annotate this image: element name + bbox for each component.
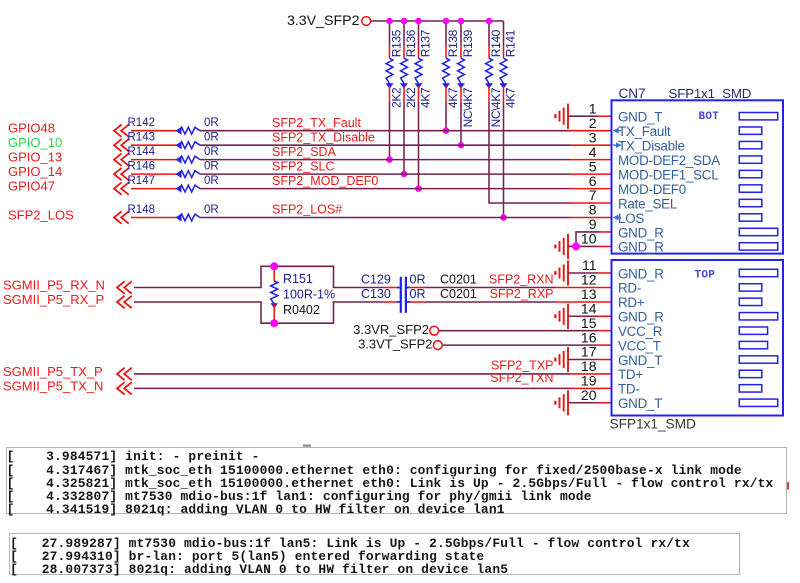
- junction dot pin9/pin10 ground: [572, 242, 580, 250]
- svg-text:R146: R146: [128, 160, 156, 172]
- svg-text:0R: 0R: [204, 204, 219, 216]
- pin 2 TX_Fault: [589, 115, 762, 139]
- svg-text:4K7: 4K7: [503, 87, 517, 108]
- resistor R135 pull-up 2K2: [386, 21, 404, 160]
- svg-text:GND_T: GND_T: [618, 353, 662, 368]
- off-page connector GPIO48: [114, 125, 122, 137]
- svg-text:GND_R: GND_R: [618, 310, 664, 325]
- svg-text:4K7: 4K7: [446, 87, 460, 108]
- ground at pin14: [554, 304, 568, 329]
- ground at pin11: [554, 260, 568, 285]
- svg-text:R137: R137: [418, 29, 432, 57]
- svg-text:GPIO48: GPIO48: [8, 121, 55, 136]
- svg-text:R135: R135: [389, 29, 403, 57]
- svg-text:R141: R141: [503, 29, 517, 57]
- wire pin1 to connector: [568, 115, 598, 117]
- resistor R141 pull-up 4K7: [500, 21, 518, 218]
- ground at pin20: [554, 390, 568, 415]
- svg-text:SFP2_RXN: SFP2_RXN: [489, 272, 554, 286]
- resistor R137 pull-up 4K7: [415, 21, 433, 189]
- console log box 1: [6, 447, 788, 514]
- junction dot R135/SDA: [386, 156, 393, 163]
- svg-text:NC\4K7: NC\4K7: [489, 87, 503, 127]
- power symbol circle 3.3V_SFP2: [362, 17, 371, 26]
- svg-text:R148: R148: [128, 204, 156, 216]
- off-page connector GPIO_14: [114, 168, 122, 180]
- svg-text:0R: 0R: [204, 175, 219, 187]
- pin 16 VCC_T: [581, 329, 768, 353]
- pin 3 TX_Disable: [589, 129, 762, 153]
- svg-text:0R: 0R: [204, 160, 219, 172]
- ground at pin1: [554, 104, 568, 129]
- svg-text:MOD-DEF1_SCL: MOD-DEF1_SCL: [618, 167, 718, 182]
- svg-text:R143: R143: [128, 132, 156, 144]
- svg-text:R151: R151: [283, 272, 313, 286]
- svg-text:MOD-DEF2_SDA: MOD-DEF2_SDA: [618, 153, 720, 168]
- svg-text:R0402: R0402: [283, 303, 320, 317]
- svg-text:GND_T: GND_T: [618, 396, 662, 411]
- wire 3.3V_SFP2 rail: [371, 20, 504, 22]
- wire net SFP2_TX_Fault: [200, 130, 570, 132]
- svg-text:GPIO47: GPIO47: [8, 179, 55, 194]
- svg-text:0R: 0R: [204, 146, 219, 158]
- junction dot R138/TX_Fault: [443, 127, 450, 134]
- svg-text:2K2: 2K2: [389, 87, 403, 108]
- svg-text:SFP2_TX_Disable: SFP2_TX_Disable: [272, 130, 375, 144]
- svg-text:100R-1%: 100R-1%: [283, 288, 335, 302]
- resistor R139 pull-up NC\4K7: [457, 21, 475, 145]
- svg-text:2K2: 2K2: [404, 87, 418, 108]
- svg-text:R138: R138: [446, 29, 460, 57]
- wire SGMII_P5_RX_P jog: [134, 302, 383, 323]
- pin 12 RD-: [581, 272, 762, 296]
- wire net SFP2_SLC: [200, 173, 570, 175]
- off-page connector GPIO_13: [114, 153, 122, 165]
- svg-text:0R: 0R: [204, 117, 219, 129]
- off-page connector SGMII_P5_RX_N: [117, 281, 125, 293]
- off-page connector GPIO_10: [114, 139, 122, 151]
- ground at pin10: [554, 234, 568, 259]
- svg-text:3.3VR_SFP2: 3.3VR_SFP2: [353, 322, 429, 337]
- off-page connector GPIO47: [114, 182, 122, 194]
- pin 15 VCC_R: [581, 315, 768, 339]
- svg-text:SFP2_MOD_DEF0: SFP2_MOD_DEF0: [272, 174, 378, 188]
- pin 17 GND_T: [581, 344, 778, 368]
- ground at pin17: [554, 347, 568, 372]
- svg-text:R144: R144: [128, 146, 156, 158]
- wire net SFP2_SDA: [200, 159, 570, 161]
- svg-text:C129: C129: [361, 272, 391, 286]
- svg-text:LOS: LOS: [618, 211, 644, 226]
- svg-text:SGMII_P5_TX_N: SGMII_P5_TX_N: [3, 379, 103, 394]
- svg-text:VCC_R: VCC_R: [618, 324, 663, 339]
- svg-text:SFP2_RXP: SFP2_RXP: [490, 287, 554, 301]
- svg-text:4K7: 4K7: [418, 87, 432, 108]
- artifact red tick right edge of console box 1: [787, 482, 789, 490]
- arrow pin 3 output: [613, 142, 622, 148]
- svg-text:R136: R136: [404, 29, 418, 57]
- pin 7 Rate_SEL: [589, 187, 762, 211]
- resistor R140 pull-up NC\4K7: [485, 21, 503, 127]
- off-page connector SFP2_LOS: [114, 211, 122, 223]
- junction dot R151 bottom: [270, 319, 278, 327]
- pin 8 LOS: [589, 202, 762, 226]
- connector CN7 BOT box: [612, 100, 784, 253]
- svg-text:GND_R: GND_R: [618, 240, 664, 255]
- svg-text:0R: 0R: [410, 287, 426, 301]
- pin 9 GND_R: [589, 216, 778, 240]
- svg-text:C0201: C0201: [440, 272, 477, 286]
- svg-text:R147: R147: [128, 175, 156, 187]
- resistor R136 pull-up 2K2: [400, 21, 418, 174]
- resistor R147 0R: [128, 175, 219, 193]
- junction dot R141/LOS#: [500, 214, 507, 221]
- svg-text:TX_Disable: TX_Disable: [618, 138, 685, 153]
- wire pin17 to connector: [568, 359, 598, 361]
- pin 10 GND_R: [581, 231, 778, 255]
- svg-text:R139: R139: [461, 29, 475, 57]
- wire R140 to Rate_SEL pin 7: [489, 102, 570, 203]
- svg-text:SFP2_LOS#: SFP2_LOS#: [272, 203, 342, 217]
- svg-text:SFP2_SDA: SFP2_SDA: [272, 145, 337, 159]
- wire net SFP2_MOD_DEF0: [200, 188, 570, 190]
- artifact gray dash above console: [303, 445, 311, 447]
- junction dots on 3.3V rail: [386, 18, 393, 25]
- wire SFP2_RXN to pin 12: [426, 287, 556, 289]
- wire net SFP2_LOS#: [200, 217, 570, 219]
- wire pin10 to connector: [568, 245, 598, 247]
- connector CN7 TOP box: [612, 260, 784, 416]
- arrow pin 8 input: [613, 215, 621, 221]
- pin 4 MOD-DEF2_SDA: [589, 144, 762, 168]
- arrow pin 2 input: [613, 128, 621, 134]
- svg-text:TOP: TOP: [695, 270, 716, 282]
- svg-text:NC\4K7: NC\4K7: [461, 87, 475, 127]
- svg-text:GPIO_13: GPIO_13: [8, 150, 62, 165]
- svg-text:TD+: TD+: [618, 367, 643, 382]
- svg-text:TX_Fault: TX_Fault: [618, 124, 671, 139]
- wire SFP2_TXN to pin 19: [134, 387, 570, 389]
- svg-text:GND_R: GND_R: [618, 266, 664, 281]
- junction dot R139/TX_Disable: [458, 142, 465, 149]
- resistor R144 0R: [128, 146, 219, 164]
- resistor R143 0R: [128, 132, 219, 150]
- off-page connector SGMII_P5_TX_N: [117, 382, 125, 394]
- wire pin20 to connector: [568, 402, 598, 404]
- off-page connector SGMII_P5_TX_P: [117, 368, 125, 380]
- svg-text:R142: R142: [128, 117, 156, 129]
- wire SGMII_P5_RX_N jog: [134, 266, 383, 287]
- svg-text:20: 20: [581, 387, 597, 403]
- svg-text:RD+: RD+: [618, 295, 645, 310]
- resistor R148 0R: [128, 204, 219, 222]
- pin 19 TD-: [581, 373, 762, 397]
- wire pin14 to connector: [568, 315, 598, 317]
- svg-text:SGMII_P5_RX_P: SGMII_P5_RX_P: [3, 292, 104, 307]
- svg-text:C0201: C0201: [440, 287, 477, 301]
- svg-text:MOD-DEF0: MOD-DEF0: [618, 182, 686, 197]
- svg-text:BOT: BOT: [699, 111, 720, 123]
- svg-text:RD-: RD-: [618, 281, 641, 296]
- svg-text:R140: R140: [489, 29, 503, 57]
- pin 5 MOD-DEF1_SCL: [589, 158, 762, 182]
- off-page connector SGMII_P5_RX_P: [117, 296, 125, 308]
- pin 6 MOD-DEF0: [589, 173, 762, 197]
- junction dot R136/SLC: [401, 171, 408, 178]
- wire net SFP2_TX_Disable: [200, 144, 570, 146]
- pin 20 GND_T: [581, 387, 778, 411]
- wire pin 9 to ground: [576, 232, 601, 246]
- svg-text:SFP1x1_SMD: SFP1x1_SMD: [669, 86, 752, 101]
- svg-text:VCC_T: VCC_T: [618, 338, 661, 353]
- pin 11 GND_R: [582, 257, 778, 281]
- svg-text:TD-: TD-: [618, 382, 640, 397]
- resistor R151 100R-1% R0402 termination: [271, 266, 336, 323]
- capacitor C130 0R C0201: [361, 287, 477, 313]
- svg-text:0R: 0R: [410, 272, 426, 286]
- resistor R142 0R: [128, 117, 219, 135]
- svg-text:C130: C130: [361, 287, 391, 301]
- svg-text:SFP2_SLC: SFP2_SLC: [272, 159, 335, 173]
- svg-text:SGMII_P5_TX_P: SGMII_P5_TX_P: [3, 364, 103, 379]
- pin 18 TD+: [581, 358, 762, 382]
- svg-text:CN7: CN7: [619, 86, 646, 101]
- svg-text:GPIO_10: GPIO_10: [8, 135, 62, 150]
- wire SFP2_TXP to pin 18: [134, 373, 570, 375]
- wire SFP2_RXP to pin 13: [426, 301, 556, 303]
- svg-text:SFP2_TXN: SFP2_TXN: [490, 371, 553, 385]
- svg-text:Rate_SEL: Rate_SEL: [618, 196, 677, 211]
- capacitor C129 0R C0201: [361, 272, 477, 298]
- junction dot R137/MOD_DEF0: [415, 185, 422, 192]
- svg-text:3.3V_SFP2: 3.3V_SFP2: [287, 13, 360, 29]
- svg-text:GND_R: GND_R: [618, 225, 664, 240]
- svg-text:0R: 0R: [204, 132, 219, 144]
- svg-text:SGMII_P5_RX_N: SGMII_P5_RX_N: [3, 278, 105, 293]
- resistor R146 0R: [128, 160, 219, 178]
- svg-text:10: 10: [581, 231, 597, 247]
- console log box 2: [9, 533, 740, 575]
- resistor R138 pull-up 4K7: [442, 21, 460, 131]
- svg-text:GPIO_14: GPIO_14: [8, 164, 62, 179]
- svg-text:SFP1x1_SMD: SFP1x1_SMD: [610, 416, 697, 431]
- junction dot R151 top: [270, 262, 278, 270]
- wire pin11 to connector: [568, 272, 598, 274]
- pin 1 GND_T: [589, 100, 778, 124]
- pin 13 RD+: [581, 286, 762, 310]
- pin 14 GND_R: [581, 300, 778, 324]
- svg-text:3.3VT_SFP2: 3.3VT_SFP2: [358, 336, 432, 351]
- svg-text:SFP2_TX_Fault: SFP2_TX_Fault: [272, 116, 361, 130]
- svg-text:SFP2_LOS: SFP2_LOS: [8, 208, 74, 223]
- svg-text:GND_T: GND_T: [618, 110, 662, 125]
